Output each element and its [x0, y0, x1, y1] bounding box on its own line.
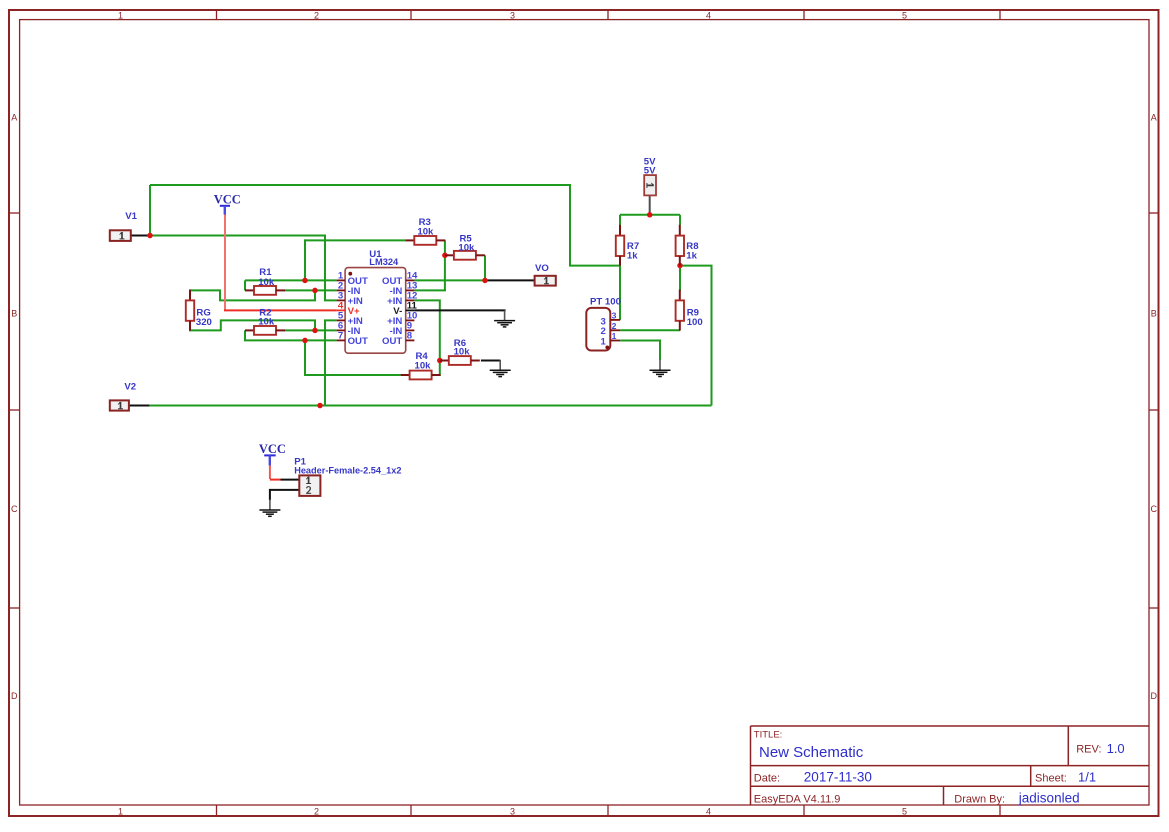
- svg-text:OUT: OUT: [348, 336, 368, 347]
- svg-text:New Schematic: New Schematic: [759, 744, 864, 761]
- svg-text:REV:: REV:: [1076, 744, 1101, 756]
- U1 pin 3 stub: [337, 299, 346, 301]
- label R8 value: [686, 241, 699, 261]
- svg-text:10k: 10k: [415, 360, 432, 371]
- junction dot 5V rail: [647, 212, 653, 218]
- wire pin14 to R5 junction: [414, 279, 485, 281]
- wire VCC net vertical: [224, 214, 226, 310]
- svg-text:10k: 10k: [454, 347, 471, 358]
- op-amp U1 LM324 body: [345, 268, 406, 354]
- svg-text:EasyEDA V4.11.9: EasyEDA V4.11.9: [754, 793, 841, 805]
- U1 pin 5 stub: [337, 319, 346, 321]
- wire R5 right down: [484, 255, 486, 280]
- svg-text:2: 2: [314, 807, 319, 817]
- svg-text:2: 2: [314, 11, 319, 21]
- U1 pin 6 stub: [337, 329, 346, 331]
- frame row ticks right: [1149, 213, 1159, 608]
- ground at R6: [490, 360, 511, 377]
- U1 pin 12 stub: [406, 299, 415, 301]
- wire 5V to R8 top: [679, 215, 681, 225]
- vcc symbol net flag (P1): [259, 442, 286, 465]
- junction dot pin7/R4: [302, 338, 308, 344]
- wire V1 junction riser: [149, 185, 151, 237]
- svg-text:D: D: [11, 691, 18, 701]
- junction dot pin14/R5/VO: [482, 278, 488, 284]
- svg-text:2: 2: [612, 321, 617, 331]
- wire RG bottom link to pin5: [189, 320, 315, 330]
- junction dot V2 line: [317, 403, 323, 409]
- svg-text:1: 1: [118, 11, 123, 21]
- wire R1 left corner: [244, 280, 246, 290]
- svg-text:Header-Female-2.54_1x2: Header-Female-2.54_1x2: [294, 466, 401, 476]
- wire V1 connector stub black: [131, 235, 150, 237]
- wire R2 left corner to pin7: [245, 330, 337, 340]
- svg-text:5V: 5V: [644, 165, 656, 176]
- svg-text:jadisonled: jadisonled: [1018, 791, 1080, 806]
- svg-text:1.0: 1.0: [1107, 741, 1125, 756]
- svg-text:4: 4: [706, 807, 711, 817]
- resistor RG vertical: [186, 290, 194, 331]
- svg-text:VCC: VCC: [259, 442, 286, 456]
- svg-text:D: D: [1151, 691, 1158, 701]
- frame column labels top: [118, 11, 907, 21]
- resistor R4: [401, 371, 441, 380]
- wire pin13: [414, 289, 446, 291]
- junction dot pin2/RG: [312, 288, 318, 294]
- junction dot pin6/RG: [312, 328, 318, 334]
- U1 pin 1 stub: [337, 279, 346, 281]
- frame row ticks left: [9, 213, 20, 608]
- resistor R2: [245, 326, 285, 335]
- junction dot pin1/R3: [302, 278, 308, 284]
- svg-text:Drawn By:: Drawn By:: [954, 793, 1005, 805]
- wire P1 pin1 black: [281, 479, 300, 481]
- label R4 value: [415, 351, 432, 371]
- svg-text:Sheet:: Sheet:: [1035, 773, 1067, 785]
- junction dot R8 bottom: [677, 263, 683, 269]
- svg-text:Date:: Date:: [754, 773, 780, 785]
- U1 pin 7 stub: [337, 339, 346, 341]
- svg-text:A: A: [1151, 113, 1157, 123]
- U1 pin 2 stub: [337, 289, 346, 291]
- wire top loop V1 to R7 bottom: [150, 185, 619, 266]
- wire 5V symbol stem black: [649, 195, 651, 214]
- wire pin5 stub side: [325, 320, 337, 406]
- svg-text:4: 4: [706, 11, 711, 21]
- wire pin7 down to R4: [305, 340, 401, 375]
- U1 pin 8 stub: [406, 339, 415, 341]
- wire pin2 to RG top link: [189, 290, 315, 300]
- wire V2 line: [149, 405, 711, 407]
- label R5 value: [458, 233, 475, 253]
- svg-text:5: 5: [902, 807, 907, 817]
- resistor R5: [445, 251, 485, 260]
- svg-text:1/1: 1/1: [1078, 770, 1096, 785]
- connector P1: [299, 475, 320, 496]
- power connector 5V box: [644, 175, 656, 195]
- svg-text:1k: 1k: [686, 250, 697, 261]
- svg-text:A: A: [11, 113, 17, 123]
- svg-text:320: 320: [196, 317, 212, 328]
- wire R3 right down to R5: [444, 240, 446, 291]
- wire R1 right to pin2: [285, 289, 337, 291]
- svg-text:C: C: [11, 504, 18, 514]
- svg-text:LM324: LM324: [369, 257, 399, 267]
- wire pin1 line: [245, 279, 337, 281]
- ground at PT100 pin1: [650, 359, 671, 376]
- resistor R1: [245, 286, 285, 295]
- resistor R3: [405, 236, 445, 245]
- svg-text:10k: 10k: [417, 227, 434, 238]
- U1 pin 13 stub: [406, 289, 415, 291]
- frame column ticks bottom: [217, 805, 1001, 816]
- wire VCC to pin4 V+: [224, 309, 337, 311]
- svg-text:2: 2: [600, 326, 605, 337]
- svg-text:VCC: VCC: [214, 192, 241, 206]
- wire V2 connector stub black: [129, 405, 150, 407]
- ground at P1 pin2: [259, 499, 280, 516]
- wire pin11 V- to ground black: [414, 309, 505, 311]
- frame row labels right: [1151, 113, 1158, 702]
- connector VO: [535, 276, 556, 286]
- junction dot R6 left: [437, 358, 443, 364]
- wire to R3 left: [304, 239, 405, 241]
- svg-text:B: B: [1151, 308, 1157, 318]
- vcc symbol net flag (main): [214, 192, 241, 214]
- label RG value: [196, 307, 212, 328]
- connector PT100: [586, 308, 620, 351]
- U1 pin 14 stub: [406, 279, 415, 281]
- svg-text:10k: 10k: [258, 277, 275, 288]
- svg-text:VO: VO: [535, 263, 549, 274]
- ground at pin11 V-: [494, 310, 515, 327]
- wire 5V rail: [620, 214, 680, 216]
- svg-text:C: C: [1151, 504, 1158, 514]
- connector V1: [110, 230, 131, 241]
- svg-text:3: 3: [612, 310, 617, 320]
- wire 5V to R7 top: [619, 215, 621, 225]
- wire pin12 down to R4 right: [414, 300, 440, 375]
- connector V2: [110, 400, 129, 410]
- svg-text:1: 1: [600, 337, 606, 348]
- frame column labels bottom: [118, 807, 907, 817]
- U1 pin 10 stub: [406, 319, 415, 321]
- svg-text:TITLE:: TITLE:: [754, 729, 783, 740]
- label R1 value: [258, 267, 275, 288]
- U1 pin 11 stub: [406, 309, 415, 311]
- wire R2 right to pin6: [285, 329, 337, 331]
- title block outline: [751, 726, 1150, 805]
- svg-text:1k: 1k: [627, 250, 638, 261]
- svg-text:8: 8: [407, 331, 413, 342]
- wire R8 bottom to R9 top: [679, 265, 681, 291]
- svg-text:10k: 10k: [458, 243, 475, 254]
- svg-text:V1: V1: [125, 211, 137, 222]
- wire PT100 pin2 to R9 bottom: [620, 329, 680, 331]
- U1 pin 9 stub: [406, 329, 415, 331]
- wire P1 pin2 to ground black: [270, 490, 299, 500]
- svg-text:1: 1: [612, 331, 617, 341]
- svg-text:3: 3: [510, 807, 515, 817]
- resistor R6: [440, 356, 480, 365]
- svg-text:3: 3: [510, 11, 515, 21]
- svg-text:10k: 10k: [258, 317, 275, 328]
- wire R7 bottom to PT100 pin3: [619, 266, 621, 320]
- label R6 value: [454, 338, 471, 358]
- svg-text:V2: V2: [124, 382, 136, 393]
- resistor R8 vertical: [676, 225, 684, 266]
- U1 pin1 orientation dot: [348, 272, 352, 276]
- U1 pin 4 stub: [337, 309, 346, 311]
- svg-text:PT 100: PT 100: [590, 297, 621, 308]
- frame column ticks top: [217, 10, 1001, 20]
- wire R6 right to ground black: [481, 360, 500, 362]
- wire V1 horizontal to +IN pin3: [150, 236, 337, 301]
- wire PT100 pin1 to ground: [620, 341, 660, 360]
- svg-text:2017-11-30: 2017-11-30: [804, 770, 872, 785]
- svg-text:5: 5: [902, 11, 907, 21]
- svg-text:OUT: OUT: [382, 336, 402, 347]
- wire R3 branch riser: [304, 239, 306, 280]
- label R2 value: [258, 308, 275, 328]
- svg-text:100: 100: [687, 317, 703, 328]
- wire R8 junction down to V2: [680, 266, 712, 406]
- svg-text:1: 1: [118, 807, 123, 817]
- resistor R9 vertical: [676, 290, 684, 331]
- label R9 value: [687, 308, 703, 329]
- resistor R7 vertical: [616, 225, 624, 266]
- label R7 value: [627, 241, 639, 261]
- wire VO black: [485, 279, 535, 281]
- frame row labels left: [11, 113, 18, 702]
- wire P1 VCC red: [269, 465, 271, 479]
- junction dot R3/R5: [442, 253, 448, 258]
- svg-text:B: B: [11, 308, 17, 318]
- label R3 value: [417, 217, 434, 237]
- junction dot V1: [147, 233, 153, 239]
- svg-text:7: 7: [338, 331, 343, 342]
